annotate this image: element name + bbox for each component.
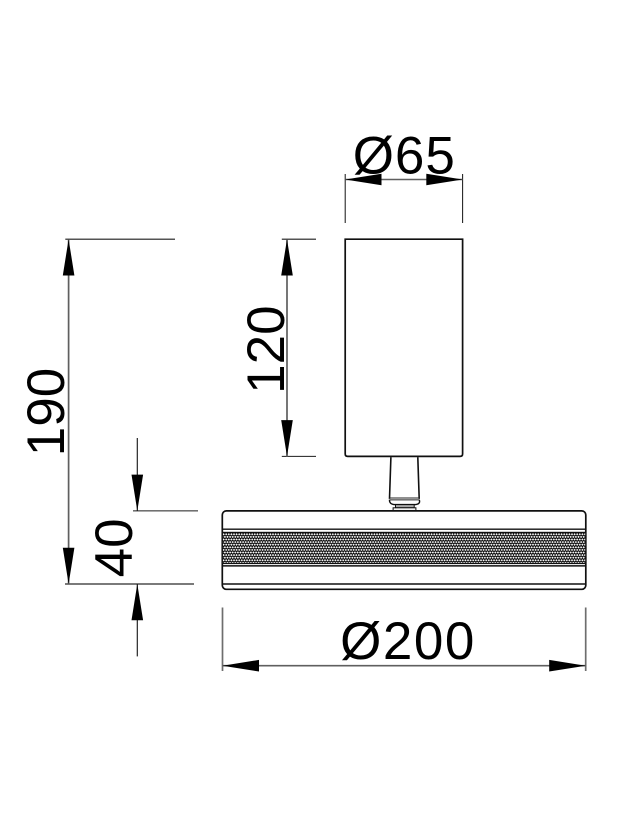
dim 40 arrow bottom (points up): [132, 584, 144, 620]
dim 120 arrow bottom: [281, 420, 293, 456]
base drum outline: [222, 511, 586, 589]
dim Ø65 extension line right: [462, 174, 464, 223]
dim Ø200 arrow left: [223, 660, 260, 672]
neck bell flare: [389, 500, 419, 505]
dim 120 extension line top: [282, 238, 316, 240]
neck joint double line: [390, 498, 420, 500]
dim 40 arrow top (points down): [132, 475, 144, 511]
dim Ø200 extension line right: [585, 608, 587, 672]
dim Ø200 arrow right: [549, 660, 586, 672]
dim 190/40 shared extension line bottom: [65, 583, 194, 585]
base upper feature line: [222, 528, 586, 530]
base bottom rim line: [222, 583, 586, 585]
dim 190 arrow bottom: [63, 548, 75, 584]
dim Ø65 arrow left: [345, 174, 381, 186]
svg-text:Ø65: Ø65: [353, 127, 456, 186]
washer ring: [393, 508, 416, 511]
dim Ø65 arrow right: [426, 174, 462, 186]
base lower feature line: [222, 565, 586, 567]
dim 120 dimension line: [286, 239, 288, 456]
lamp head cylinder: [345, 239, 462, 456]
dim 120 arrow top: [281, 239, 293, 275]
knurled band: [222, 532, 586, 563]
dim 40 top leader: [136, 438, 138, 511]
dim Ø200 extension line left: [222, 608, 224, 672]
dim 190 arrow top: [63, 239, 75, 275]
dim Ø65 dimension line: [345, 179, 462, 181]
svg-text:40: 40: [85, 518, 144, 577]
gray nipple collar: [396, 505, 415, 508]
dim 190 dimension line: [68, 239, 70, 584]
dim Ø200 dimension line: [223, 665, 586, 667]
neck taper: [390, 457, 420, 499]
dim 40 extension line top: [133, 510, 198, 512]
dim Ø65 extension line left: [344, 174, 346, 223]
svg-text:190: 190: [17, 368, 76, 456]
svg-text:120: 120: [237, 305, 296, 393]
dim 190 extension line top: [65, 238, 175, 240]
dim 120 extension line bottom: [282, 455, 316, 457]
svg-text:Ø200: Ø200: [340, 612, 476, 671]
dim 40 bottom leader: [136, 584, 138, 656]
